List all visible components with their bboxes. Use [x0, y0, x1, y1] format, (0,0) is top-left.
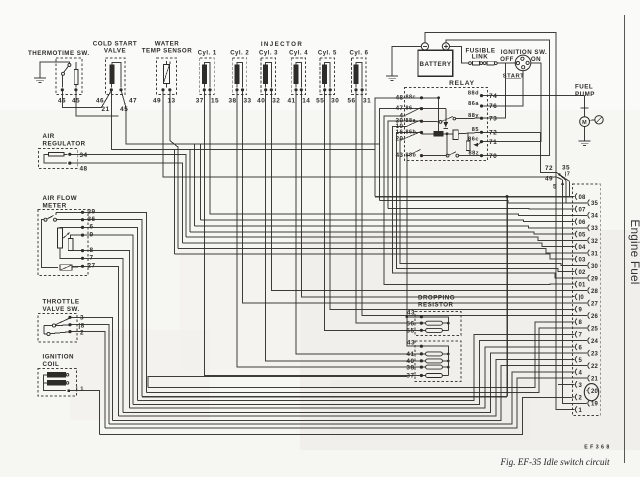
- connector pin 6: [572, 344, 583, 352]
- connector pin 08: [572, 193, 586, 201]
- wire bundle row to pin 8: [148, 322, 572, 388]
- connector pin 26: [587, 312, 599, 320]
- wire fan vert to pin 05 row: [189, 150, 191, 232]
- svg-text:88d: 88d: [468, 90, 479, 96]
- wire 3 (throttle valve sw): [70, 317, 113, 420]
- svg-text:38: 38: [406, 364, 414, 371]
- wire battery plus to fusible link: [450, 46, 469, 63]
- svg-text:25: 25: [591, 326, 599, 332]
- svg-text:37: 37: [196, 98, 204, 105]
- wire 10 net: [392, 127, 586, 278]
- connector pin 3: [572, 381, 583, 389]
- air flow meter AFM: [38, 195, 96, 276]
- wire 72 (relay to harness junction): [483, 132, 557, 172]
- wire 32 (injector 3 to ECU connector): [271, 90, 586, 291]
- connector pin 7: [572, 331, 583, 339]
- wire junction diagonals: [557, 172, 570, 181]
- wire 43 net (relay to dropping resistors): [407, 156, 422, 347]
- relay pin 4: [400, 112, 404, 119]
- water temp sensor WTS: [142, 41, 192, 105]
- svg-text:M: M: [582, 120, 587, 126]
- svg-text:41: 41: [406, 351, 414, 358]
- wire stub pin 3: [558, 384, 572, 386]
- connector pin 27: [587, 300, 599, 308]
- wire bold riser to bottom bundle: [506, 197, 508, 397]
- connector pin 4: [572, 369, 583, 377]
- wire to connector pin 32: [186, 237, 587, 240]
- relay contact S1 (88y row): [422, 116, 482, 123]
- svg-text:41: 41: [287, 98, 295, 105]
- connector pin 28: [587, 287, 599, 295]
- svg-text:VALVE SW.: VALVE SW.: [43, 306, 80, 313]
- svg-text:5: 5: [553, 184, 557, 191]
- relay pin 73: [468, 113, 497, 122]
- thermotime switch TTS: [28, 50, 90, 105]
- svg-text:8: 8: [579, 320, 583, 326]
- wire to connector pin 33: [195, 226, 587, 228]
- svg-text:19: 19: [591, 402, 599, 408]
- connector pin 25: [587, 325, 599, 333]
- wire ignition ON to relay 71: [483, 63, 541, 142]
- dropping resistor DR (lower bank): [406, 340, 461, 382]
- svg-text:Engine Fuel: Engine Fuel: [628, 219, 640, 284]
- svg-text:31: 31: [363, 98, 371, 105]
- throttle valve switch TVS: [38, 299, 85, 343]
- svg-text:2: 2: [80, 330, 84, 337]
- ground (fuel pump): [579, 127, 591, 146]
- svg-text:Cyl. 1: Cyl. 1: [198, 51, 217, 57]
- wire fan vert to pin 03 row: [174, 150, 176, 254]
- relay pin 47: [396, 105, 423, 112]
- svg-text:29: 29: [591, 276, 599, 282]
- svg-text:49: 49: [545, 176, 553, 183]
- wire 16 net: [396, 133, 572, 272]
- svg-text:Cyl. 5: Cyl. 5: [318, 51, 337, 57]
- injector Cyl5: [316, 51, 339, 105]
- wire to connector pin 05: [190, 232, 572, 234]
- wire 33 (injector 2 to ECU connector): [243, 90, 587, 303]
- svg-text:COIL: COIL: [43, 361, 60, 368]
- injector Cyl2: [228, 51, 251, 105]
- dropping resistor DR (upper bank): [406, 295, 461, 336]
- svg-text:56: 56: [347, 98, 355, 105]
- svg-text:LINK: LINK: [472, 54, 488, 61]
- wire thermotime 45 down to bottom bundle: [76, 90, 119, 116]
- connector pin 30: [587, 262, 599, 270]
- relay pin 10: [396, 123, 404, 130]
- connector pin 07: [572, 206, 586, 214]
- svg-text:| 1: | 1: [76, 387, 84, 393]
- connector pin 03: [572, 256, 586, 264]
- wire bundle row to pin 25: [146, 328, 586, 392]
- wire fusible link to ignition switch: [497, 62, 516, 64]
- wire bundle row to pin 23: [123, 353, 587, 412]
- wire 48 net (relay to bold feed): [375, 98, 422, 197]
- wire 1 (ignition coil to bundle): [70, 391, 100, 435]
- relay pin 74: [468, 90, 497, 99]
- svg-text:ON: ON: [531, 56, 541, 63]
- svg-text:6: 6: [579, 345, 583, 351]
- wire 49 (water temp to junction): [163, 90, 557, 177]
- wire to connector pin 31: [178, 249, 587, 253]
- wire 45 (cold start 47 down, right to relay 47 riser): [121, 90, 379, 144]
- fuel pump FP: [575, 84, 603, 127]
- battery BAT: [418, 43, 453, 76]
- svg-text:46: 46: [96, 98, 104, 105]
- wire 9 (air flow meter to bundle): [83, 235, 134, 404]
- wire 74 (relay to fuel pump): [483, 95, 585, 97]
- wire bundle row to pin 5: [119, 359, 572, 416]
- svg-text:70: 70: [489, 153, 497, 160]
- svg-text:IGNITION: IGNITION: [43, 354, 75, 361]
- svg-text:26: 26: [591, 314, 599, 320]
- relay internal switch blades: [405, 108, 421, 155]
- svg-text:34: 34: [79, 152, 87, 159]
- svg-text:55: 55: [406, 328, 414, 335]
- relay coil K1: [422, 96, 454, 136]
- connector pin 20 circle: [584, 384, 598, 401]
- relay pin 39: [396, 118, 423, 125]
- connector pin 8: [572, 319, 583, 327]
- air regulator AR: [39, 133, 88, 173]
- connector pin 01: [572, 281, 586, 289]
- svg-text:34: 34: [591, 214, 599, 220]
- wire 17 (junction stub): [569, 182, 571, 197]
- svg-text:21: 21: [101, 106, 109, 113]
- svg-text:06: 06: [579, 220, 587, 226]
- wire battery minus top feed: [425, 33, 572, 410]
- wire bundle row to pin 21: [105, 378, 587, 428]
- connector pin 06: [572, 218, 586, 226]
- wire 15 (injector 1 to ECU connector): [210, 90, 587, 216]
- relay contact S2 (88z row): [422, 134, 482, 157]
- svg-text:3: 3: [579, 383, 583, 389]
- svg-text:04: 04: [579, 245, 587, 251]
- injector Cyl3: [257, 51, 280, 105]
- connector pin 2: [572, 394, 583, 402]
- svg-text:4: 4: [579, 370, 583, 376]
- svg-text:30: 30: [591, 264, 599, 270]
- svg-text:THERMOTIME SW.: THERMOTIME SW.: [28, 50, 90, 57]
- svg-text:INJECTOR: INJECTOR: [261, 41, 303, 48]
- svg-text:43: 43: [407, 310, 415, 317]
- wire 46 (thermotime 46 to cold start 46): [62, 90, 111, 108]
- wire 30 (injector 5 to ECU connector): [330, 90, 572, 309]
- relay pin 16: [396, 129, 423, 136]
- wire 8 (air flow meter to bundle): [83, 251, 130, 408]
- wire 14 (injector 4 to ECU connector): [301, 90, 572, 297]
- connector pin 33: [587, 225, 599, 233]
- connector pin 24: [587, 337, 599, 345]
- svg-text:|7: |7: [565, 172, 571, 178]
- svg-text:COLD START: COLD START: [93, 41, 137, 48]
- svg-text:30: 30: [331, 98, 339, 105]
- relay pin 48: [396, 94, 423, 101]
- wire 4 net: [384, 116, 572, 285]
- svg-text:37: 37: [406, 373, 414, 380]
- svg-text:08: 08: [579, 195, 587, 201]
- injector Cyl4: [287, 51, 310, 105]
- svg-text:56: 56: [406, 320, 414, 327]
- svg-text:71: 71: [489, 139, 497, 146]
- connector pin 19: [587, 400, 599, 408]
- wire 2 (throttle valve sw): [70, 332, 105, 428]
- wire 21 (cold start 46 down to relay 48 feed row): [111, 90, 375, 150]
- svg-text:33: 33: [591, 226, 599, 232]
- wire 38 (injector 2 to dropping resistor): [237, 90, 421, 367]
- wire bundle row to pin 22: [113, 366, 587, 421]
- svg-text:86a: 86a: [468, 101, 479, 107]
- svg-text:43: 43: [407, 340, 415, 347]
- wire to connector pin 06: [200, 220, 571, 222]
- wire 48 (air regulator): [70, 163, 183, 243]
- svg-text:DROPPING: DROPPING: [418, 295, 455, 302]
- junction J1 labels: [545, 165, 570, 191]
- svg-text:|0: |0: [579, 295, 585, 301]
- wire 6 (air flow meter to bundle): [83, 227, 138, 400]
- connector pin 22: [587, 362, 599, 370]
- svg-text:72: 72: [489, 130, 497, 137]
- svg-text:31: 31: [591, 251, 599, 257]
- connector pin 34: [587, 212, 599, 220]
- svg-text:76: 76: [489, 103, 497, 110]
- relay pin 20: [396, 135, 404, 142]
- svg-text:|8: |8: [78, 323, 84, 330]
- svg-text:7: 7: [579, 333, 583, 339]
- connector pin 02: [572, 268, 586, 276]
- cold start valve CSV: [93, 41, 137, 105]
- svg-text:15: 15: [211, 98, 219, 105]
- wire 34 (air regulator): [70, 154, 186, 237]
- wire bundle row to pin bold: [142, 396, 507, 398]
- connector pin 05: [572, 231, 586, 239]
- connector pin 29: [587, 275, 599, 283]
- svg-text:Cyl. 3: Cyl. 3: [259, 51, 278, 57]
- svg-text:22: 22: [591, 364, 599, 370]
- wire fan vert to pin 33 row: [194, 144, 196, 226]
- connector pin 5: [572, 356, 583, 364]
- wire to connector pin 07: [388, 208, 572, 211]
- svg-text:49: 49: [153, 98, 161, 105]
- svg-text:9: 9: [579, 308, 583, 314]
- wire ignition OFF branch to relay 73: [483, 63, 506, 118]
- svg-text:74: 74: [489, 93, 497, 100]
- wire ignition START to relay 76: [483, 71, 523, 106]
- wire 39 net: [388, 121, 421, 208]
- wire 13 (water temp down then jog): [170, 90, 178, 249]
- svg-text:METER: METER: [43, 203, 67, 210]
- svg-text:2: 2: [579, 395, 583, 401]
- relay RLY: [405, 80, 488, 161]
- relay pin 76: [468, 101, 497, 110]
- svg-text:Cyl. 2: Cyl. 2: [230, 51, 249, 57]
- ECU connector (35 pin): [573, 184, 601, 416]
- svg-text:RELAY: RELAY: [449, 80, 475, 87]
- svg-text:23: 23: [591, 352, 599, 358]
- wire 55 (injector 5 to dropping resistor): [325, 90, 422, 330]
- ignition switch IGN-SW: [500, 49, 547, 80]
- wire bundle row to pin 24: [133, 341, 586, 405]
- relay pin 43: [396, 152, 423, 159]
- ground (battery): [386, 46, 421, 80]
- svg-text:73: 73: [489, 115, 497, 122]
- wire fan vert to pin 06 row: [199, 144, 201, 220]
- svg-text:32: 32: [591, 239, 599, 245]
- svg-text:01: 01: [579, 283, 587, 289]
- svg-text:Fig. EF-35 Idle switch circui: Fig. EF-35 Idle switch circuit: [499, 457, 610, 467]
- wire to connector pin 35: [379, 201, 586, 203]
- connector pin 23: [587, 350, 599, 358]
- svg-text:Cyl. 6: Cyl. 6: [349, 51, 368, 57]
- wire bundle row to pin 4: [109, 372, 572, 424]
- relay diode D1: [422, 109, 449, 129]
- svg-text:02: 02: [579, 270, 587, 276]
- wire 20 net: [400, 139, 587, 266]
- wire 18 (throttle valve sw): [70, 325, 109, 425]
- svg-text:VALVE: VALVE: [104, 48, 126, 55]
- wire row 376 (left riser to dropping resistor area): [148, 376, 407, 387]
- svg-text:47: 47: [129, 98, 137, 105]
- wire 08 feed (bold): [375, 196, 572, 198]
- wire 7 (air flow meter to bundle): [83, 258, 123, 412]
- wire to connector pin 04: [183, 243, 572, 247]
- svg-text:72: 72: [545, 165, 553, 172]
- svg-text:TEMP SENSOR: TEMP SENSOR: [142, 48, 192, 55]
- page tab divider: [624, 15, 626, 463]
- wire bundle row to pin 2: [100, 397, 572, 434]
- injector Cyl1: [196, 51, 219, 105]
- svg-text:55: 55: [316, 98, 324, 105]
- svg-text:AIR: AIR: [43, 133, 55, 140]
- svg-text:REGULATOR: REGULATOR: [43, 141, 86, 148]
- relay resistor R1: [453, 130, 482, 140]
- connector pin 9: [572, 306, 583, 314]
- connector pin 21: [587, 375, 599, 383]
- wire 27 (air flow meter to bundle): [83, 266, 119, 416]
- svg-text:05: 05: [579, 232, 587, 238]
- wire 36 (air flow meter to bundle): [83, 220, 142, 397]
- connector pin 31: [587, 250, 599, 258]
- relay pin 70: [468, 150, 497, 159]
- wire 41 (injector 4 to dropping resistor): [296, 90, 421, 354]
- relay pin 72: [472, 127, 498, 136]
- connector pin 10: [572, 294, 585, 302]
- svg-text:14: 14: [302, 98, 310, 105]
- svg-text:07: 07: [579, 207, 587, 213]
- wire bundle row to pin 7: [138, 334, 572, 400]
- svg-text:5: 5: [579, 358, 583, 364]
- svg-text:1: 1: [579, 408, 583, 414]
- wire bundle row to pin 6: [130, 347, 572, 408]
- svg-text:AIR FLOW: AIR FLOW: [43, 195, 78, 202]
- connector pin 1: [572, 406, 583, 414]
- injector Cyl6: [347, 51, 371, 105]
- wire 47 net: [379, 109, 421, 201]
- relay pin 71: [468, 136, 497, 145]
- connector pin 35: [587, 200, 599, 208]
- svg-text:21: 21: [591, 377, 599, 383]
- svg-text:35: 35: [591, 201, 599, 207]
- svg-text:OFF: OFF: [500, 56, 514, 63]
- svg-text:Cyl. 4: Cyl. 4: [289, 51, 308, 57]
- connector pin 20: [587, 388, 599, 396]
- ground (thermotime): [34, 62, 69, 83]
- ignition coil IC: [38, 354, 84, 397]
- wire 5 (junction down to ECU pin 19): [561, 180, 586, 404]
- wire 37 (injector 1 to dropping resistor): [204, 90, 421, 376]
- fusible link FL: [466, 48, 498, 66]
- connector pin 04: [572, 243, 586, 251]
- wire to connector pin 03: [175, 254, 572, 259]
- svg-text:THROTTLE: THROTTLE: [43, 299, 80, 306]
- svg-text:38: 38: [228, 98, 236, 105]
- svg-text:27: 27: [591, 301, 599, 307]
- svg-text:35: 35: [562, 165, 570, 172]
- svg-text:33: 33: [243, 98, 251, 105]
- svg-text:3: 3: [80, 315, 84, 322]
- svg-text:WATER: WATER: [155, 41, 179, 48]
- svg-text:03: 03: [579, 258, 587, 264]
- wire 31 (injector 6 to ECU connector): [362, 90, 586, 316]
- svg-text:24: 24: [591, 339, 599, 345]
- wire 56 (injector 6 to dropping resistor): [356, 90, 421, 323]
- wire battery plus top feed to relay 70: [446, 40, 550, 156]
- wire 35 (junction to ECU pin 35): [566, 181, 587, 203]
- svg-text:28: 28: [591, 289, 599, 295]
- svg-text:40: 40: [257, 98, 265, 105]
- svg-text:45: 45: [120, 106, 128, 113]
- svg-text:RESISTOR: RESISTOR: [418, 302, 454, 309]
- relay resistor R2 (86c branch): [466, 133, 481, 150]
- svg-text:13: 13: [167, 98, 175, 105]
- wire 39 (air flow meter to bundle): [83, 212, 147, 392]
- svg-text:E F 3 6 8: E F 3 6 8: [584, 445, 610, 451]
- svg-text:32: 32: [272, 98, 280, 105]
- wire 40 (injector 3 to dropping resistor): [266, 90, 422, 361]
- svg-text:20: 20: [591, 389, 599, 395]
- svg-text:BATTERY: BATTERY: [419, 61, 451, 68]
- junction J1 node: [558, 173, 560, 175]
- svg-text:FUEL: FUEL: [575, 84, 593, 91]
- svg-text:48: 48: [79, 166, 87, 173]
- connector pin 32: [587, 237, 599, 245]
